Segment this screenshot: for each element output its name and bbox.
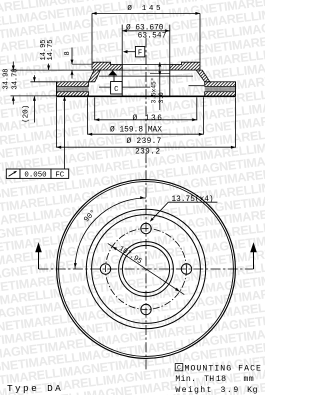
svg-text:TH: TH [204,375,214,384]
svg-text:FC: FC [55,172,64,180]
svg-text:63.547: 63.547 [138,33,167,41]
svg-text:0.050: 0.050 [24,172,46,180]
dim 107.95 PCD diagonal [108,243,185,294]
svg-text:18: 18 [216,375,226,384]
section arrow left [38,250,40,269]
mounting face note: boxed C [175,364,183,371]
svg-text:8: 8 [64,51,72,55]
hub flange circle Ø145 [92,215,201,324]
svg-text:Ø 159.8 MAX: Ø 159.8 MAX [110,125,162,134]
hat interior visible edges [99,75,193,77]
svg-text:34.98: 34.98 [2,68,10,89]
FC leader [64,97,66,169]
svg-text:C: C [177,365,181,372]
svg-text:13.75(x4): 13.75(x4) [172,196,214,204]
svg-text:Kg: Kg [247,386,258,395]
disc braking band left (section cut) [57,82,89,87]
svg-text:Min.: Min. [175,374,196,384]
svg-text:34.78: 34.78 [11,68,19,89]
hub flange left (section cut, raised rim) [92,62,122,70]
svg-text:MOUNTING FACE: MOUNTING FACE [185,365,263,374]
hat wall right (section cut) [196,70,210,82]
horizontal centreline / section trace [39,268,254,270]
svg-text:14.75: 14.75 [47,39,55,60]
outer diameter circle [57,180,236,359]
feature control frame: runout 0.050 FC [6,169,20,178]
bolt circle PCD 107.95 (centreline) [106,229,187,310]
braking surface inner circle Ø159.8 [86,209,205,328]
vertical centreline [145,38,147,134]
svg-text:Ø 145: Ø 145 [127,4,163,13]
section arrow right [253,250,255,269]
svg-text:239.2: 239.2 [135,149,160,157]
svg-text:Ø 136: Ø 136 [133,114,164,123]
hat wall left (section cut) [89,70,101,82]
centre bore walls [121,65,123,96]
svg-text:(20): (20) [23,105,31,123]
svg-text:3.5x45°: 3.5x45° [150,78,157,104]
svg-text:3.9: 3.9 [221,386,240,395]
svg-text:Ø 239.7: Ø 239.7 [127,137,162,146]
raised rim circle [119,242,174,297]
hub flange right (section cut, raised rim) [170,62,200,70]
svg-text:Type DA: Type DA [7,383,63,394]
datum flag F [135,47,144,57]
disc bottom surface line [57,95,236,97]
disc braking band right (section cut) [205,82,236,87]
outer chamfer circle [59,182,234,357]
centre bore circle Ø63.67 [122,245,169,292]
svg-text:mm: mm [244,375,254,384]
svg-text:3.0: 3.0 [158,92,165,103]
bolt holes 4x Ø13.75 [141,223,151,233]
datum C triangle + box on mounting face [108,70,117,75]
extension lines left [10,69,92,71]
svg-text:F: F [138,50,142,58]
90 degree arc dimension [75,198,146,269]
svg-text:C: C [114,86,119,94]
svg-text:Weight: Weight [175,385,212,395]
